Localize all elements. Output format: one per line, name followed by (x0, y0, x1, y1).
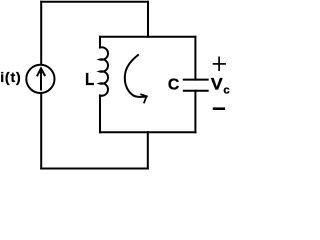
inner box right stub above capacitor (194, 37, 196, 80)
current source arrow shaft (40, 69, 42, 89)
svg-text:i(t): i(t) (0, 69, 21, 85)
circulating current arrow arc (125, 55, 147, 97)
inductor L coil (100, 47, 108, 95)
current source i(t) circle (26, 65, 54, 93)
inner box right stub below capacitor (194, 91, 196, 133)
svg-text:L: L (85, 69, 95, 89)
minus sign of Vc polarity (213, 107, 225, 110)
plus sign of Vc polarity (213, 63, 226, 65)
svg-text:V: V (211, 75, 223, 94)
wire bottom (41, 168, 148, 170)
svg-text:C: C (168, 77, 179, 94)
wire top (41, 1, 148, 3)
circulating current arrow head (140, 94, 146, 103)
inner box left wire below inductor (99, 96, 101, 133)
inner box left stub above inductor (99, 37, 101, 48)
wire left lower segment (40, 94, 42, 169)
inner box top wire (100, 36, 195, 38)
wire drop from inner box bottom to bottom wire (147, 132, 149, 168)
current source arrow head (37, 68, 45, 76)
wire drop from top wire to inner box (147, 2, 149, 37)
inner box bottom wire (100, 131, 195, 133)
capacitor C top plate (183, 79, 209, 81)
wire left upper segment (40, 2, 42, 64)
capacitor C bottom plate (183, 90, 209, 92)
svg-text:c: c (223, 85, 229, 97)
